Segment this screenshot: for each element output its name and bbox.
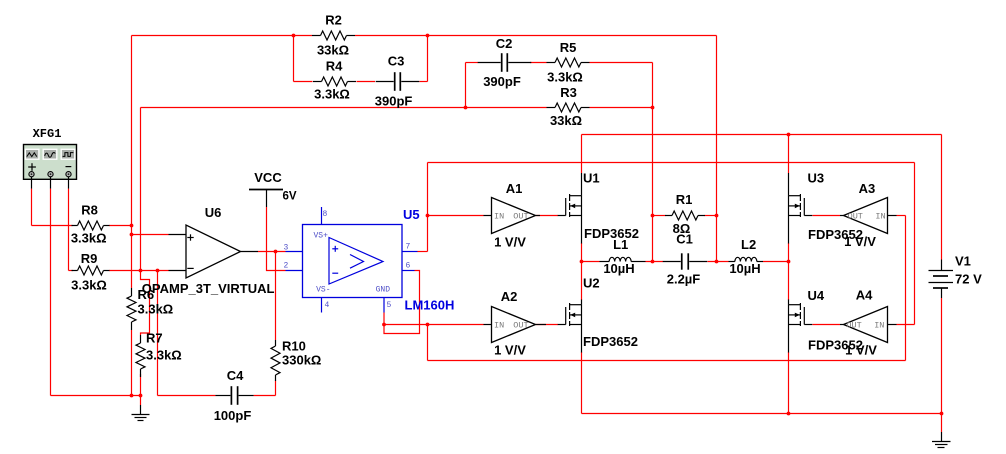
wire: U3 drain lead (788, 135, 790, 174)
wire: A4 input lead (897, 324, 915, 326)
wire net: drain supply row from V1 (582, 135, 942, 260)
svg-text:R9: R9 (81, 251, 98, 266)
wire: XFG1 minus terminal to R9 (69, 189, 169, 271)
svg-text:R7: R7 (146, 331, 163, 346)
svg-text:R2: R2 (325, 13, 342, 28)
svg-text:A4: A4 (856, 287, 873, 302)
buffer A4 mirrored (840, 287, 897, 357)
power VCC 6V (249, 170, 297, 207)
wire: A2 input row (384, 324, 484, 326)
wire: R1 leads (653, 215, 717, 217)
wire: U4 drain from right LC node (788, 262, 790, 301)
svg-text:C4: C4 (227, 368, 244, 383)
svg-text:C1: C1 (676, 231, 693, 246)
wire net: long inverting feedback row (141, 108, 653, 271)
transistor U2 FDP3652 (558, 275, 638, 352)
wire: U5 pin6 loop to pin5 node (384, 271, 420, 334)
svg-text:V1: V1 (955, 254, 971, 269)
svg-text:1 V/V: 1 V/V (845, 342, 877, 357)
buffer A1 (484, 181, 541, 250)
svg-text:R8: R8 (81, 202, 98, 217)
svg-text:R10: R10 (282, 338, 306, 353)
svg-text:L1: L1 (613, 237, 628, 252)
svg-text:3.3kΩ: 3.3kΩ (71, 277, 107, 292)
wire: V1 bottom to ground (941, 298, 943, 432)
svg-text:3.3kΩ: 3.3kΩ (314, 87, 350, 102)
battery V1 72V (929, 254, 983, 298)
wire: U3 source to right LC node (788, 243, 790, 262)
inductor L2 10uH (729, 237, 764, 276)
svg-text:7: 7 (406, 243, 411, 252)
op-amp U6 OPAMP_3T_VIRTUAL (142, 205, 275, 296)
wire: XFG1 plus terminal to R8 (32, 189, 132, 226)
wire net: A2 node down, cross row, A3 input riser (428, 216, 906, 361)
svg-text:8: 8 (323, 210, 328, 219)
svg-text:390pF: 390pF (375, 93, 413, 108)
resistor R4 3.3k (313, 59, 356, 102)
wire: U1 source to LC node (581, 243, 583, 262)
svg-text:5: 5 (387, 301, 392, 310)
wire net: U2 source and bottom right row (582, 352, 942, 414)
wire net: top feedback row (132, 36, 717, 289)
svg-text:LM160H: LM160H (405, 297, 455, 312)
svg-text:2: 2 (284, 262, 289, 271)
svg-text:10µH: 10µH (729, 261, 760, 276)
svg-text:IN: IN (494, 321, 504, 331)
junction nodes (130, 34, 944, 416)
svg-text:4: 4 (325, 301, 330, 310)
comparator U5 LM160H (284, 207, 455, 313)
svg-text:6V: 6V (283, 191, 297, 203)
svg-text:OUT: OUT (846, 321, 861, 331)
resistor R10 330k vertical (271, 338, 321, 381)
wire: R7 jog from inverting row (141, 271, 150, 336)
inductor L1 10uH (600, 237, 646, 276)
capacitor C1 2.2uF (663, 231, 708, 286)
wire net: C2/R5 branch (466, 63, 653, 262)
wire: A1 input row (428, 215, 484, 217)
resistor R7 3.3k vertical (136, 331, 182, 377)
svg-text:U3: U3 (808, 171, 825, 186)
svg-text:VS+: VS+ (314, 232, 329, 241)
svg-text:R1: R1 (676, 192, 693, 207)
svg-text:10µH: 10µH (603, 261, 634, 276)
svg-text:390pF: 390pF (483, 74, 521, 89)
svg-text:R5: R5 (560, 40, 577, 55)
ground right (932, 432, 951, 448)
wire: A3 output to U3 gate (813, 215, 841, 217)
svg-text:A3: A3 (859, 181, 876, 196)
svg-text:1 V/V: 1 V/V (494, 234, 526, 249)
resistor R6 3.3k vertical (127, 287, 173, 330)
svg-text:6: 6 (406, 262, 411, 271)
resistor R2 33k (312, 13, 355, 58)
resistor R1 8ohm (665, 192, 705, 236)
wire: U2 drain from LC node (581, 262, 583, 301)
wire: VCC to U5 pin2 (267, 207, 286, 271)
wire: U6 noninverting input row (132, 234, 169, 236)
svg-text:GND: GND (376, 286, 391, 295)
transistor U4 FDP3652 mirrored (789, 288, 863, 353)
wire: inverting node down to C4 (158, 271, 216, 396)
svg-text:IN: IN (874, 321, 884, 331)
resistor R8 3.3k (71, 202, 110, 245)
svg-text:L2: L2 (741, 237, 756, 252)
resistor R9 3.3k (71, 251, 109, 292)
svg-text:1 V/V: 1 V/V (494, 342, 526, 357)
capacitor C4 100pF (214, 368, 254, 423)
svg-text:U4: U4 (808, 288, 825, 303)
ground left (132, 396, 150, 421)
svg-text:3.3kΩ: 3.3kΩ (146, 348, 182, 363)
svg-text:C3: C3 (388, 54, 405, 69)
function generator XFG1 (24, 127, 77, 189)
wire: U4 source to bottom right row (788, 352, 790, 414)
wire: A4 output to U4 gate (813, 324, 841, 326)
capacitor C3 390pF (375, 54, 419, 109)
svg-text:R3: R3 (560, 85, 577, 100)
svg-text:A1: A1 (506, 181, 523, 196)
wire: U6 output to U5 pin3 (258, 251, 286, 253)
svg-text:XFG1: XFG1 (33, 127, 62, 141)
wire: R6 bottom to ground row (131, 330, 133, 396)
svg-text:2.2µF: 2.2µF (667, 271, 701, 286)
svg-text:100pF: 100pF (214, 408, 252, 423)
svg-text:C2: C2 (496, 36, 513, 51)
svg-text:72 V: 72 V (955, 271, 982, 286)
svg-text:33kΩ: 33kΩ (550, 113, 582, 128)
svg-text:U2: U2 (583, 275, 600, 290)
svg-text:3.3kΩ: 3.3kΩ (547, 69, 583, 84)
wire: R7 bottom to ground row (140, 374, 142, 396)
svg-text:FDP3652: FDP3652 (583, 334, 638, 349)
wire: A2 output to U2 gate (536, 324, 558, 326)
svg-text:U5: U5 (403, 207, 420, 222)
svg-text:VS-: VS- (316, 286, 330, 295)
svg-text:3.3kΩ: 3.3kΩ (138, 301, 174, 316)
svg-text:3.3kΩ: 3.3kΩ (71, 231, 107, 246)
svg-text:OUT: OUT (513, 321, 528, 331)
svg-text:OUT: OUT (848, 212, 863, 222)
wire: U6 output node down to R10 top (275, 252, 277, 341)
svg-text:U6: U6 (205, 205, 222, 220)
wire: A3 input lead (897, 215, 906, 217)
transistor U1 FDP3652 (558, 171, 639, 244)
resistor R3 33k (547, 85, 590, 128)
wire net: R4/C3 branch (294, 36, 428, 82)
svg-text:OUT: OUT (513, 212, 528, 222)
svg-text:VCC: VCC (254, 170, 282, 185)
svg-text:IN: IN (875, 212, 885, 222)
svg-text:3: 3 (284, 244, 289, 253)
svg-text:330kΩ: 330kΩ (282, 352, 321, 367)
capacitor C2 390pF (478, 36, 532, 89)
svg-text:OPAMP_3T_VIRTUAL: OPAMP_3T_VIRTUAL (142, 281, 275, 296)
wire: A1 output to U1 gate (536, 215, 558, 217)
svg-text:FDP3652: FDP3652 (584, 226, 639, 241)
svg-text:A2: A2 (501, 289, 518, 304)
transistor U3 FDP3652 mirrored (789, 171, 863, 244)
svg-text:1 V/V: 1 V/V (844, 234, 876, 249)
wire net: U5 pin7 riser and row to A4 input (418, 163, 915, 325)
wire: C4 right to R10 bottom (254, 381, 276, 396)
svg-text:U1: U1 (583, 171, 600, 186)
wire net: LC filter row (582, 261, 789, 263)
wire: XFG1 common terminal to ground row (51, 189, 141, 396)
resistor R5 3.3k (547, 40, 590, 85)
svg-text:33kΩ: 33kΩ (317, 43, 349, 58)
svg-text:IN: IN (494, 212, 504, 222)
buffer A2 (484, 289, 547, 358)
svg-text:R4: R4 (326, 59, 343, 74)
buffer A3 mirrored (840, 181, 897, 249)
